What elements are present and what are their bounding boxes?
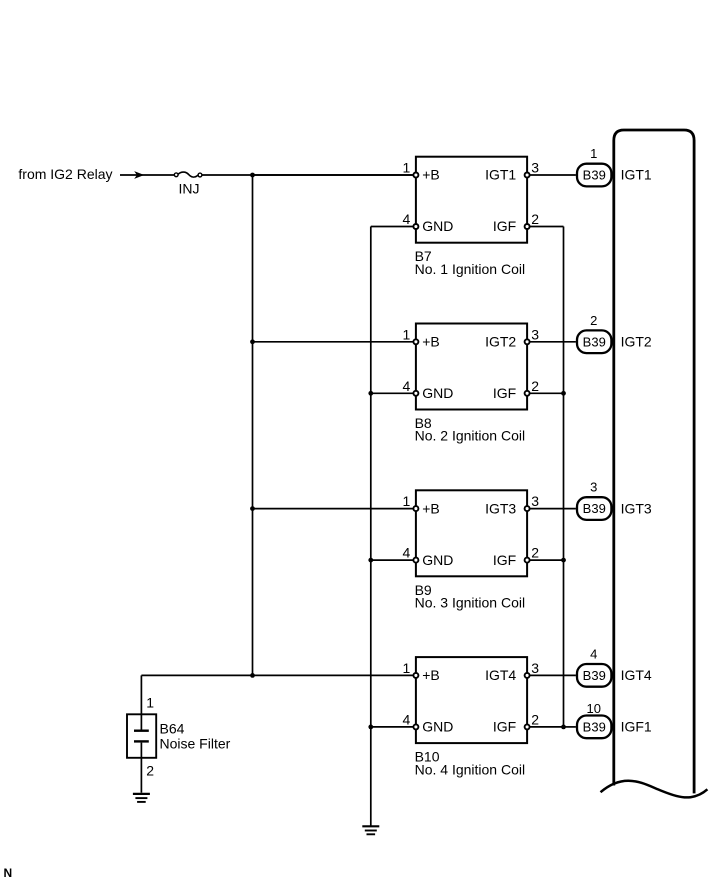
svg-text:IGF: IGF xyxy=(493,552,516,568)
svg-text:No. 2 Ignition Coil: No. 2 Ignition Coil xyxy=(415,428,526,444)
svg-text:IGF: IGF xyxy=(493,719,516,735)
svg-text:B39: B39 xyxy=(583,168,606,183)
svg-text:3: 3 xyxy=(531,160,539,176)
svg-text:IGF: IGF xyxy=(493,218,516,234)
svg-text:INJ: INJ xyxy=(179,181,200,197)
svg-text:+B: +B xyxy=(422,334,440,350)
svg-text:IGF: IGF xyxy=(493,385,516,401)
svg-text:IGT2: IGT2 xyxy=(485,334,516,350)
svg-text:No. 1 Ignition Coil: No. 1 Ignition Coil xyxy=(415,261,526,277)
svg-text:2: 2 xyxy=(531,712,539,728)
svg-text:GND: GND xyxy=(422,552,453,568)
svg-text:1: 1 xyxy=(403,160,411,176)
svg-text:1: 1 xyxy=(590,146,597,161)
svg-text:4: 4 xyxy=(590,647,597,662)
svg-text:+B: +B xyxy=(422,667,440,683)
svg-text:IGF1: IGF1 xyxy=(621,719,652,735)
svg-text:4: 4 xyxy=(403,712,411,728)
svg-text:GND: GND xyxy=(422,218,453,234)
svg-text:3: 3 xyxy=(531,660,539,676)
svg-text:IGT4: IGT4 xyxy=(621,667,652,683)
svg-text:B39: B39 xyxy=(583,334,606,349)
svg-text:1: 1 xyxy=(146,694,154,710)
svg-text:+B: +B xyxy=(422,500,440,516)
svg-text:2: 2 xyxy=(531,545,539,561)
svg-text:from IG2 Relay: from IG2 Relay xyxy=(18,166,112,182)
svg-text:2: 2 xyxy=(146,762,154,778)
svg-text:No. 4 Ignition Coil: No. 4 Ignition Coil xyxy=(415,761,526,777)
svg-text:3: 3 xyxy=(531,493,539,509)
svg-text:4: 4 xyxy=(403,545,411,561)
svg-text:B39: B39 xyxy=(583,720,606,735)
svg-text:2: 2 xyxy=(531,378,539,394)
svg-text:1: 1 xyxy=(403,493,411,509)
svg-text:IGT3: IGT3 xyxy=(485,500,516,516)
svg-text:4: 4 xyxy=(403,378,411,394)
svg-text:2: 2 xyxy=(531,211,539,227)
svg-text:10: 10 xyxy=(587,701,601,716)
svg-text:Noise Filter: Noise Filter xyxy=(160,735,231,751)
svg-text:IGT2: IGT2 xyxy=(621,334,652,350)
svg-text:IGT1: IGT1 xyxy=(485,167,516,183)
svg-text:+B: +B xyxy=(422,167,440,183)
svg-text:GND: GND xyxy=(422,385,453,401)
svg-text:2: 2 xyxy=(590,313,597,328)
svg-text:IGT4: IGT4 xyxy=(485,667,516,683)
svg-text:1: 1 xyxy=(403,660,411,676)
svg-text:B39: B39 xyxy=(583,501,606,516)
svg-text:N: N xyxy=(4,866,13,880)
svg-text:B39: B39 xyxy=(583,668,606,683)
svg-text:3: 3 xyxy=(531,326,539,342)
svg-text:3: 3 xyxy=(590,480,597,495)
svg-text:4: 4 xyxy=(403,211,411,227)
svg-text:IGT1: IGT1 xyxy=(621,167,652,183)
svg-text:IGT3: IGT3 xyxy=(621,500,652,516)
svg-text:No. 3 Ignition Coil: No. 3 Ignition Coil xyxy=(415,595,526,611)
svg-text:1: 1 xyxy=(403,326,411,342)
svg-text:B64: B64 xyxy=(160,721,185,737)
svg-text:GND: GND xyxy=(422,719,453,735)
